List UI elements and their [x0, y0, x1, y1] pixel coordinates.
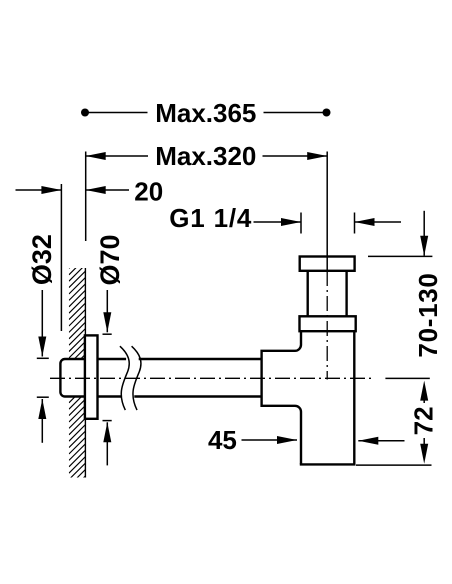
dimension Max.320 [86, 155, 328, 157]
wall surface line [84, 268, 86, 478]
svg-text:Max.365: Max.365 [155, 98, 256, 128]
svg-text:20: 20 [134, 176, 163, 206]
pipe break curve 2 [132, 346, 141, 410]
wall pipe block [60, 359, 85, 397]
siphon cup bottom [300, 463, 356, 465]
extension line pipe end in wall [60, 184, 62, 331]
union nut and cup left edge [262, 331, 301, 465]
horizontal pipe bottom line [98, 395, 262, 397]
dimension 20 [16, 189, 130, 191]
extension line vertical pipe axis [326, 152, 328, 272]
siphon cup right edge [353, 331, 355, 465]
lower nut [300, 316, 356, 331]
vertical centerline [326, 271, 328, 380]
rosette escutcheon [85, 335, 98, 418]
svg-text:G1 1/4: G1 1/4 [169, 203, 252, 233]
top nut [300, 257, 355, 271]
pipe break curve 1 [120, 346, 129, 410]
extension line wall surface [85, 152, 87, 242]
svg-text:Ø32: Ø32 [27, 234, 57, 285]
svg-text:45: 45 [208, 425, 237, 455]
svg-text:Max.320: Max.320 [155, 141, 256, 171]
svg-text:70-130: 70-130 [413, 272, 443, 357]
vertical pipe walls [308, 271, 347, 317]
horizontal centerline [50, 377, 373, 379]
dimension Max.365 [85, 112, 327, 114]
wall hatch [69, 246, 86, 499]
svg-text:72: 72 [409, 406, 439, 435]
svg-text:Ø70: Ø70 [95, 234, 125, 285]
horizontal pipe top line [98, 358, 262, 360]
